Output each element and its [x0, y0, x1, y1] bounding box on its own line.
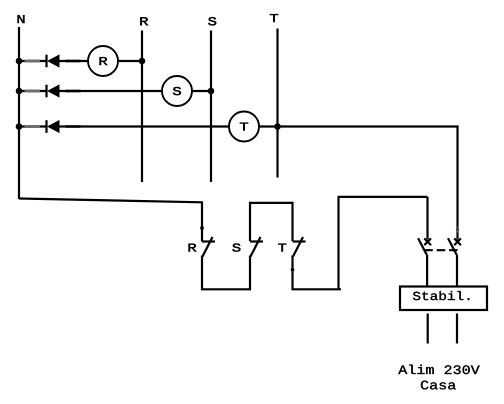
- diode D2: [25, 84, 81, 97]
- box U1 Stabil.: [400, 287, 487, 311]
- breaker contact right: [448, 238, 461, 286]
- node artifact on T switch bottom: [291, 268, 295, 272]
- wire riser bracket: [338, 196, 428, 198]
- dashed mechanical link: [424, 249, 457, 251]
- diode D1: [25, 54, 81, 67]
- lamp T: [229, 112, 259, 142]
- lamp S: [162, 76, 192, 106]
- label T: [270, 14, 278, 22]
- wire output left: [427, 314, 429, 344]
- node artifact on breaker right wire: [456, 227, 459, 233]
- wire switch S top: [249, 202, 251, 241]
- switch R: [202, 237, 215, 289]
- wire row2 diode-lamp: [59, 90, 162, 92]
- wire row2 N-diode: [19, 90, 47, 92]
- node N row2: [16, 88, 23, 95]
- wire row1 N-diode: [19, 60, 47, 62]
- wire S bus: [210, 31, 212, 183]
- label S: [208, 17, 216, 25]
- node T row3: [274, 123, 281, 130]
- wire bottom T-riser: [292, 288, 342, 290]
- wire N bus: [18, 27, 20, 199]
- switch S: [250, 237, 263, 289]
- node artifact on R switch drop: [200, 226, 204, 230]
- wire N feed: [19, 199, 202, 203]
- label switch T: [278, 244, 286, 252]
- wire output right: [456, 314, 458, 344]
- wire row3 diode-lamp: [59, 125, 229, 127]
- wire riser up: [337, 197, 339, 289]
- node R row1: [139, 58, 146, 65]
- wire row3 N-diode: [19, 125, 47, 127]
- node S row2: [208, 88, 215, 95]
- label switch S: [232, 243, 240, 251]
- node N row3: [16, 123, 23, 130]
- wire row3 lamp-Tbus: [259, 125, 278, 127]
- wire bottom R-S: [201, 288, 251, 290]
- wire R bus: [141, 31, 143, 183]
- wire T bus: [276, 29, 278, 178]
- wire row1 lamp-Rbus: [118, 60, 142, 62]
- wire row2 lamp-Sbus: [192, 90, 211, 92]
- wire top bracket S-T: [249, 202, 294, 204]
- label switch R: [189, 244, 197, 252]
- wire row1 diode-lamp: [59, 60, 88, 62]
- wire breaker left drop: [426, 197, 428, 240]
- diode D3: [25, 120, 81, 133]
- breaker contact left: [418, 238, 431, 286]
- wire N feed drop: [201, 201, 203, 241]
- label Alim 230V: [398, 365, 479, 374]
- lamp R: [88, 46, 118, 76]
- label Casa: [421, 381, 456, 390]
- wire row3 to breaker: [278, 125, 459, 127]
- wire breaker right drop: [456, 127, 458, 240]
- switch T: [293, 237, 306, 289]
- wire switch T top: [291, 202, 293, 241]
- label R: [140, 17, 148, 25]
- node N row1: [16, 58, 23, 65]
- label N: [18, 15, 25, 23]
